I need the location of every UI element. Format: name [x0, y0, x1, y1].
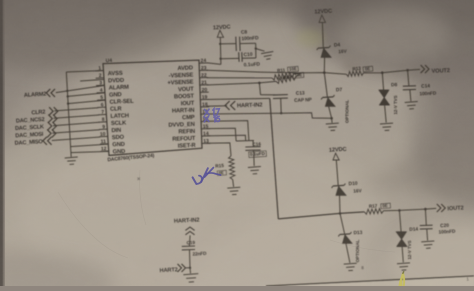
wire D13 to ground — [346, 243, 350, 262]
wire R15 to ground — [232, 180, 235, 187]
wire C16 to ground — [253, 151, 256, 167]
wire IOUT2 to D14 — [399, 210, 401, 232]
ground G3 under D7 — [331, 118, 334, 123]
wire C19 to HART2 node — [189, 250, 192, 268]
pin 18 stub and name HART-IN — [200, 106, 209, 108]
wire 12VDC down to AVDD pin 24 — [219, 37, 222, 64]
wire pin1 to bus — [66, 71, 103, 73]
wire C20 to ground — [426, 229, 429, 240]
blue handwritten cross-out and 17 at pin 17 — [205, 109, 210, 115]
pin 22 stub and name +VSENSE — [199, 77, 208, 79]
ground G8 under C19 — [183, 274, 199, 283]
wire R13 to VOUT2 — [363, 69, 420, 73]
wire pin24 to 12VDC node — [208, 63, 221, 65]
wire 12VDC to D4 — [321, 22, 324, 47]
wire pin14 REFOUT — [207, 135, 246, 141]
wire IOUT2 to C20 — [424, 209, 427, 225]
diode D14 12-V TVS — [396, 232, 406, 239]
wire D10 to IOUT2 wire — [339, 195, 342, 213]
wire D8 to ground — [385, 105, 387, 123]
wire pin23 -VSENSE long wire to VOUT2 — [207, 70, 347, 74]
pin 14 stub and name REFOUT — [201, 135, 210, 137]
pin 12 stub and name GND — [100, 150, 109, 153]
capacitor C20 100nFD — [420, 224, 433, 226]
wire to C13 top plate — [261, 94, 276, 96]
pin 2 stub and name DVDD — [96, 77, 105, 80]
pin 20 stub and name BOOST — [200, 91, 209, 93]
resistor R11 10E — [272, 72, 294, 80]
blue handwritten cross-out and 16 at pin 16 — [204, 116, 209, 122]
ground G10 under D14 — [397, 263, 410, 271]
wire D4 to main wire — [323, 57, 325, 72]
diode D13 optional — [340, 233, 350, 236]
wire to C10 — [221, 57, 239, 59]
resistor R12 10E — [259, 81, 276, 83]
capacitor C8 — [235, 37, 238, 51]
pin 19 stub and name IOUT — [200, 98, 209, 100]
wire 12VDC to D10 — [336, 160, 338, 185]
pin 10 stub and name SDO — [99, 135, 108, 137]
resistor R17 0E — [364, 209, 383, 215]
pin 4 stub and name GND — [97, 92, 106, 94]
pin 5 stub and name CLR-SEL — [97, 99, 106, 101]
wire pin19 IOUT to corner — [207, 98, 270, 99]
ground G5 under C14 — [405, 102, 418, 110]
wire D14 to ground — [402, 246, 403, 262]
diode D8 12-V TVS — [379, 90, 389, 97]
capacitor C19 22nFD — [182, 245, 195, 247]
ground G4 under D8 — [380, 123, 393, 131]
pin 21 stub and name VOUT — [199, 84, 208, 86]
wire HART-IN2 to C19 — [188, 235, 191, 246]
yellow stain bottom right — [400, 271, 405, 286]
wire junction to D13 — [340, 213, 345, 233]
wire main to C14 — [408, 70, 409, 86]
wire C16 top stub — [252, 141, 254, 147]
resistor R15 — [229, 156, 235, 180]
wire DAC_MISO to pin 10 — [52, 137, 100, 141]
pin 16 stub and name DVVD_EN — [201, 120, 210, 122]
resistor R13 0E — [346, 71, 363, 77]
wire IOUT long vertical — [270, 98, 279, 218]
pin 6 stub and name CLR — [98, 106, 107, 108]
wire pin17 CMP — [207, 113, 332, 119]
ground G7 under R15 — [227, 187, 240, 195]
wire pin21 to junction — [207, 83, 260, 85]
wire R11 join — [294, 73, 300, 74]
wire junction to D7 — [324, 73, 327, 98]
diode D10 16V zener — [333, 184, 344, 187]
wire IOUT2 horizontal — [278, 212, 364, 219]
wire pin12 to bus — [71, 151, 109, 152]
wire DAC_NCS2 to pin 7 — [54, 115, 99, 118]
ground G6 under C16 — [248, 167, 261, 175]
pin 11 stub and name GND — [100, 143, 109, 145]
wire R17 to IOUT2 — [383, 208, 436, 210]
wire node to C16 — [236, 140, 254, 143]
pin 7 stub and name LATCH — [98, 113, 107, 116]
pin 8 stub and name SCLK — [99, 121, 108, 124]
wire pin16 DVVD_EN — [207, 121, 249, 141]
wire C10 to right node — [242, 57, 256, 59]
pin 3 stub and name ALARM — [96, 84, 105, 87]
pin 13 stub and name ISET-R — [201, 142, 210, 144]
wire pin15 REFIN — [207, 128, 237, 141]
pin 23 stub and name -VSENSE — [199, 69, 208, 71]
wire pin5 to bus — [68, 100, 106, 104]
pin 9 stub and name DIN — [99, 128, 108, 130]
ground G2 right of C8 — [256, 49, 265, 52]
wire pin13 ISET-R — [207, 143, 232, 156]
capacitor C14 100nFD — [403, 85, 416, 87]
node VOUT2 connector — [421, 65, 425, 73]
wire CLR2 to pin 6 — [54, 108, 98, 111]
wire C13 bottom to CMP wire — [280, 99, 283, 114]
wire right vertical of cap block — [255, 43, 257, 58]
wire C8 to right node — [240, 42, 256, 44]
ground G11 under C20 — [421, 241, 434, 249]
wire pin2 — [80, 79, 104, 81]
pin 24 stub and name AVDD — [199, 62, 208, 64]
capacitor C16 0.1uFD — [245, 146, 260, 148]
wire: sheet border line bottom-right — [266, 276, 474, 286]
wire pin22 to R11 — [207, 77, 273, 79]
pin 1 stub and name AVSS — [95, 70, 104, 73]
wire D7 to ground — [329, 106, 332, 118]
wire ALARM2 to pin3 — [56, 86, 104, 93]
wire node to ground — [189, 268, 192, 274]
capacitor C13 CAP NP — [273, 94, 288, 97]
blue handwritten 15K near R15 — [193, 177, 197, 184]
wire pin11 to bus — [70, 144, 108, 147]
wire to C8 — [220, 43, 236, 45]
ground G9 under D13 — [344, 263, 357, 271]
pin 15 stub and name REFIN — [201, 128, 210, 130]
wire pin18 to HART-IN2 chevron — [207, 105, 228, 108]
wire: left ground bus — [66, 72, 71, 153]
wire HART2 to node — [186, 267, 190, 269]
op-amp U1: DAC8760 IC U4 body — [103, 60, 202, 155]
diode D7 optional — [323, 96, 334, 99]
wire DAC_SCLK to pin 8 — [53, 122, 99, 125]
node HART-IN2 connector at pin 18 — [231, 101, 236, 110]
pin 17 stub and name CMP — [200, 113, 209, 115]
wire R12 join — [296, 73, 301, 77]
capacitor C10 — [238, 52, 240, 62]
wire main to D8 — [382, 73, 383, 91]
wire pin21 node down to C13 — [259, 83, 260, 95]
wire C14 to ground — [410, 90, 411, 101]
wire DAC_MOSI to pin 9 — [52, 130, 99, 133]
node IOUT2 connector — [437, 204, 441, 212]
diode D4 16V zener — [318, 47, 329, 50]
wire pin4 to bus — [68, 93, 106, 97]
ground G1 below left bus — [70, 153, 72, 157]
